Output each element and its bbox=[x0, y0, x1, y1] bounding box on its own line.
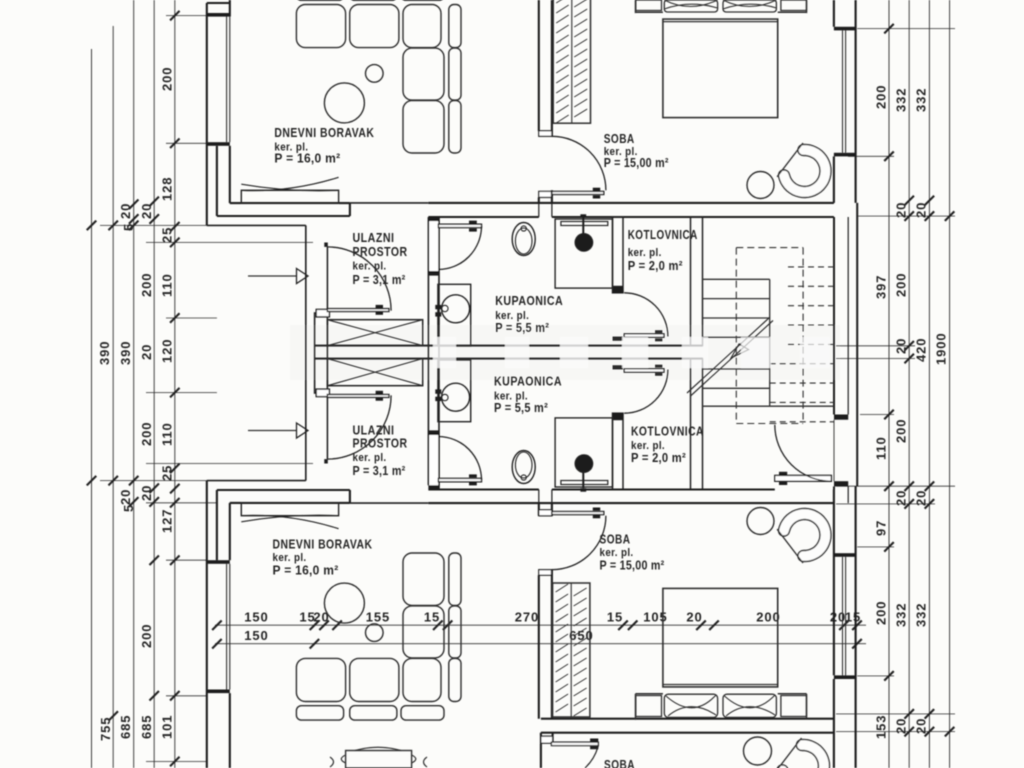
door D4b swing arc bbox=[552, 516, 606, 570]
label kupaonica bottom bbox=[494, 374, 562, 416]
label soba bottom bbox=[600, 532, 665, 573]
wall band living bottom line bbox=[217, 215, 350, 217]
armchair lower soba bbox=[776, 738, 830, 768]
svg-text:20: 20 bbox=[139, 203, 154, 219]
door D1b entry plane line (bottom) bbox=[326, 397, 328, 459]
door D6 swing arc bbox=[775, 425, 832, 482]
label living room top bbox=[274, 125, 374, 166]
wall right inner line top bbox=[833, 0, 835, 27]
svg-text:PROSTOR: PROSTOR bbox=[353, 244, 408, 259]
svg-text:200: 200 bbox=[894, 273, 909, 297]
svg-text:155: 155 bbox=[366, 610, 390, 625]
coffee table top unit bbox=[324, 83, 364, 123]
door D3 jamb top bbox=[613, 286, 624, 293]
wall left middle line bottom bbox=[216, 490, 218, 560]
svg-text:20: 20 bbox=[894, 202, 909, 218]
sideboard bottom living room bbox=[330, 747, 427, 768]
wall junction slot caps soba wall bbox=[539, 203, 552, 217]
wall soba-living bottom unit upper seg bbox=[539, 503, 552, 516]
toilet top inner bbox=[515, 228, 532, 254]
wall right outer line bbox=[855, 0, 857, 203]
door D2b handle bbox=[469, 474, 477, 485]
porch outer edge top bbox=[207, 224, 306, 226]
boiler niche bottom bbox=[555, 418, 612, 487]
extension line left 5 bbox=[166, 317, 217, 319]
svg-text:20: 20 bbox=[894, 338, 909, 354]
party wall hatch band upper bbox=[327, 320, 422, 346]
stair tread 3 bbox=[703, 317, 770, 319]
wall left inner line top upper bbox=[229, 0, 231, 17]
label ulazni prostor bottom bbox=[353, 422, 408, 478]
wall left inner line bottom lower bbox=[229, 693, 231, 768]
wall left middle line bbox=[216, 146, 218, 216]
chair side table top unit bbox=[747, 172, 774, 199]
wall left inner line bottom upper bbox=[229, 503, 231, 560]
svg-text:1900: 1900 bbox=[934, 332, 949, 365]
svg-text:ker. pl.: ker. pl. bbox=[628, 247, 662, 259]
boiler rail top bbox=[561, 222, 608, 226]
stair dashed tread 2 bbox=[788, 285, 834, 287]
door D4b jamb bottom bbox=[539, 570, 552, 576]
boiler niche top bbox=[555, 219, 612, 288]
party wall stub outline bbox=[315, 313, 328, 393]
label soba top bbox=[604, 131, 669, 170]
svg-text:270: 270 bbox=[515, 610, 539, 625]
svg-text:20: 20 bbox=[914, 202, 929, 218]
door D3b handle bbox=[655, 365, 662, 376]
svg-text:5: 5 bbox=[121, 223, 136, 231]
svg-text:SOBA: SOBA bbox=[604, 131, 635, 146]
washbasin bottom bbox=[442, 383, 470, 411]
stair flight separator line bbox=[769, 279, 771, 406]
svg-text:150: 150 bbox=[244, 628, 268, 643]
chair side table lower soba bbox=[744, 737, 772, 765]
door D6 handle bbox=[779, 472, 787, 485]
svg-text:SOBA: SOBA bbox=[600, 532, 631, 547]
toilet bottom flush bbox=[521, 475, 526, 480]
dimension chain line left-5 bbox=[174, 0, 176, 768]
wardrobe soba bottom unit bbox=[553, 583, 590, 717]
svg-text:332: 332 bbox=[914, 88, 929, 112]
door D1b leaf bbox=[327, 395, 389, 398]
entry arrow top shaft bbox=[248, 275, 297, 277]
wall bath-kotl top segment bbox=[613, 217, 624, 293]
boiler stem bottom bbox=[582, 464, 584, 489]
extension line right 1 bbox=[857, 28, 955, 30]
svg-text:P = 2,0 m²: P = 2,0 m² bbox=[628, 259, 683, 273]
stairs entry opening edge lines bbox=[834, 415, 857, 487]
dim line horizontal lower bbox=[215, 643, 866, 645]
window W4 cap bottom bbox=[834, 675, 856, 679]
chair side table bottom unit bbox=[747, 508, 774, 535]
svg-text:200: 200 bbox=[139, 624, 154, 648]
svg-text:200: 200 bbox=[160, 67, 175, 91]
stairs entry jamb bottom bbox=[834, 481, 848, 486]
label kupaonica top bbox=[495, 293, 563, 335]
extension line right 8 bbox=[836, 503, 935, 505]
door D7 handle bbox=[590, 739, 598, 750]
svg-text:25: 25 bbox=[160, 227, 175, 243]
dimension chain line right-3 bbox=[928, 0, 930, 768]
svg-text:755: 755 bbox=[98, 717, 113, 741]
svg-text:5: 5 bbox=[121, 504, 136, 512]
svg-text:128: 128 bbox=[160, 177, 175, 201]
wall band lower soba bottom line bbox=[541, 732, 834, 734]
window W2 cap top bbox=[834, 27, 856, 31]
extension line left 6 bbox=[146, 392, 217, 394]
stairs entry jamb top bbox=[834, 415, 848, 420]
svg-text:ker. pl.: ker. pl. bbox=[600, 547, 634, 559]
stair opening dashed bottom bbox=[736, 423, 803, 425]
label ulazni prostor top bbox=[353, 230, 408, 287]
svg-text:200: 200 bbox=[894, 419, 909, 443]
door D1 entry plane line bbox=[326, 247, 328, 309]
window W4 cap top bbox=[834, 553, 856, 557]
wall left outer line bottom bbox=[206, 481, 208, 768]
stair dashed tread 1 bbox=[788, 266, 834, 268]
stair opening dashed top bbox=[736, 247, 803, 249]
window W3 cap top bbox=[207, 560, 230, 564]
extension line left 12 bbox=[146, 761, 207, 763]
svg-text:P = 3,1 m²: P = 3,1 m² bbox=[353, 464, 406, 478]
svg-text:20: 20 bbox=[313, 610, 329, 625]
door D1b cap bbox=[324, 459, 328, 463]
dimension chain line right-4 bbox=[949, 0, 951, 768]
svg-text:397: 397 bbox=[874, 275, 889, 299]
washbasin top bbox=[442, 295, 470, 323]
dim ticks chain right-1 bbox=[884, 24, 894, 681]
side table top unit bbox=[366, 65, 384, 83]
extension line right 10 bbox=[857, 675, 894, 677]
double bed soba bottom unit bbox=[636, 588, 807, 719]
wall right outer line bottom bbox=[855, 486, 857, 768]
window W3 glass lines bbox=[227, 564, 230, 690]
svg-text:97: 97 bbox=[874, 520, 889, 536]
stair direction arrow bbox=[731, 344, 749, 358]
wall band bottom unit line a bbox=[428, 488, 538, 490]
svg-text:15: 15 bbox=[607, 610, 623, 625]
boiler rail bottom bbox=[561, 481, 608, 485]
extension line left 3 bbox=[100, 224, 207, 226]
door D4 leaf bbox=[552, 191, 604, 194]
extension line right 6 bbox=[860, 414, 894, 416]
extension line right 11 bbox=[836, 713, 955, 715]
window W4 glass lines bbox=[843, 557, 846, 676]
extension line left 2 bbox=[166, 142, 206, 144]
extension line left 8 bbox=[100, 480, 207, 482]
svg-text:P = 2,0 m²: P = 2,0 m² bbox=[631, 451, 686, 465]
stair dashed tread 5 bbox=[788, 343, 834, 345]
door D3 handle bbox=[655, 330, 662, 341]
dim ticks chain left-3 bbox=[129, 200, 139, 507]
stairs shaft right wall lines bottom bbox=[834, 486, 848, 503]
wall kotl-stairs bottom bbox=[691, 359, 703, 490]
porch edge vertical bbox=[305, 225, 307, 480]
stair break line bbox=[687, 318, 773, 397]
wall band bottom unit line a2 bbox=[428, 502, 834, 504]
door D2 swing arc bbox=[438, 226, 481, 270]
svg-text:200: 200 bbox=[874, 601, 889, 625]
stair dashed tread 7 bbox=[770, 382, 834, 384]
svg-text:15: 15 bbox=[845, 610, 861, 625]
washbasin tap top bbox=[435, 305, 448, 317]
stair tread 2 bbox=[703, 298, 770, 300]
door D3b jamb top (mirror) bbox=[613, 365, 624, 369]
wall left outer line top bbox=[206, 3, 208, 225]
door D2 jamb bottom bbox=[428, 271, 439, 276]
stair dashed tread 9 bbox=[770, 421, 834, 423]
party wall hatch band lower bbox=[327, 359, 422, 386]
svg-text:P = 3,1 m²: P = 3,1 m² bbox=[353, 273, 406, 287]
door D7 jamb bbox=[541, 736, 553, 743]
boiler circle top bbox=[575, 234, 592, 251]
wall left top horizontal bbox=[207, 2, 230, 4]
dim line horizontal upper bbox=[215, 624, 866, 626]
washbasin counter top bbox=[438, 284, 471, 346]
extension line left 1 bbox=[166, 15, 206, 17]
svg-text:P = 15,00 m²: P = 15,00 m² bbox=[604, 156, 669, 170]
svg-text:ULAZNI: ULAZNI bbox=[353, 230, 395, 245]
party wall stub cap top bbox=[316, 309, 329, 317]
wall kotl-stairs top bbox=[691, 217, 703, 346]
wall band living bottom unit top line bbox=[217, 489, 350, 491]
svg-text:DNEVNI BORAVAK: DNEVNI BORAVAK bbox=[274, 125, 374, 140]
door D2b jamb bottom (mirror) bbox=[428, 485, 439, 489]
door D3 jamb bottom bbox=[613, 337, 624, 341]
wall soba-living bottom unit lower seg bbox=[539, 570, 552, 719]
svg-text:15: 15 bbox=[424, 610, 440, 625]
svg-text:20: 20 bbox=[894, 490, 909, 506]
double bed soba top unit bbox=[636, 0, 807, 118]
svg-text:685: 685 bbox=[118, 715, 133, 739]
wall band living bottom unit end cap bbox=[349, 490, 351, 503]
entry arrow top head bbox=[297, 269, 309, 284]
extension line left 9 bbox=[146, 502, 217, 504]
dim ticks chain left-1 bbox=[87, 221, 97, 486]
side table bottom unit bbox=[366, 624, 384, 642]
wall right inner line bottom b bbox=[833, 679, 835, 768]
toilet bottom inner bbox=[515, 452, 532, 478]
hall bottom line (bottom unit) bbox=[350, 502, 429, 504]
door D1 swing arc bbox=[327, 247, 391, 311]
watermark fade band bbox=[290, 325, 840, 380]
door D2 handle bbox=[469, 221, 477, 232]
dim ticks chain right-4 bbox=[945, 211, 955, 736]
stair landing edge line bbox=[703, 405, 835, 407]
door D3b jamb bottom (mirror) bbox=[613, 413, 624, 420]
svg-text:390: 390 bbox=[97, 341, 112, 365]
extension line right 2 bbox=[848, 155, 894, 157]
extension line right 4 bbox=[836, 345, 915, 347]
stair tread 4 bbox=[703, 336, 770, 338]
door D3 swing arc bbox=[624, 293, 668, 337]
window W2 cap bottom bbox=[834, 153, 856, 157]
svg-text:332: 332 bbox=[894, 603, 909, 627]
wall band bottom line right a bbox=[428, 216, 538, 218]
svg-text:20: 20 bbox=[118, 203, 133, 219]
window curves living top bbox=[241, 177, 338, 191]
wall hall-bath outline bbox=[428, 217, 439, 490]
svg-text:420: 420 bbox=[914, 338, 929, 362]
dimension chain line right-1 bbox=[888, 0, 890, 768]
extension line left 11 bbox=[166, 695, 207, 697]
svg-text:20: 20 bbox=[914, 718, 929, 734]
wall soba-living top segment bbox=[539, 0, 552, 136]
party wall hatch X lower bbox=[327, 359, 422, 386]
wall band living end cap bbox=[349, 203, 351, 216]
window W3 cap bottom bbox=[207, 690, 230, 694]
boiler stem top bbox=[582, 218, 584, 243]
wall band bottom line right b bbox=[552, 216, 834, 218]
extension line right 5 bbox=[836, 358, 915, 360]
stair tread 1 bbox=[703, 278, 770, 280]
door D4b jamb top bbox=[539, 510, 552, 516]
dim ticks chain right-2 bbox=[904, 196, 914, 737]
wall hall-bath white core bottom bbox=[429, 435, 438, 485]
dim ticks chain left-4 bbox=[149, 197, 159, 701]
svg-text:DNEVNI BORAVAK: DNEVNI BORAVAK bbox=[273, 537, 373, 552]
wall right inner line bottom a bbox=[833, 490, 835, 676]
dim ticks horizontal upper bbox=[212, 620, 862, 630]
boiler stem cap top bbox=[580, 214, 586, 218]
wall band living top line bbox=[230, 202, 350, 204]
svg-text:20: 20 bbox=[830, 610, 846, 625]
extension line left 10 bbox=[166, 559, 207, 561]
stair opening dashed right bbox=[802, 248, 804, 424]
svg-text:332: 332 bbox=[894, 88, 909, 112]
dim ticks chain right-3 bbox=[925, 196, 935, 737]
door D2 leaf bbox=[438, 224, 481, 227]
door D4 swing arc bbox=[552, 136, 606, 190]
svg-text:390: 390 bbox=[118, 341, 133, 365]
door D2b leaf bbox=[438, 478, 481, 481]
svg-text:25: 25 bbox=[160, 465, 175, 481]
wall soba-living bottom segment bbox=[539, 190, 552, 203]
window W2 glass lines bbox=[843, 30, 846, 152]
window sill living bottom bbox=[241, 503, 338, 516]
party wall hatch X upper bbox=[327, 320, 422, 346]
wall band lower soba top line bbox=[541, 718, 834, 720]
svg-text:20: 20 bbox=[118, 489, 133, 505]
door D4b leaf bbox=[552, 512, 604, 515]
door D4 jamb bottom bbox=[539, 191, 552, 197]
svg-text:KOTLOVNICA: KOTLOVNICA bbox=[628, 227, 698, 242]
door D1 handle bbox=[376, 305, 383, 315]
stair dashed tread 4 bbox=[788, 324, 834, 326]
svg-text:332: 332 bbox=[914, 603, 929, 627]
porch outer edge bottom bbox=[207, 480, 306, 482]
svg-text:P = 15,00 m²: P = 15,00 m² bbox=[600, 559, 665, 573]
toilet top outer bbox=[512, 223, 535, 256]
svg-text:20: 20 bbox=[139, 344, 154, 360]
extension line right 3 bbox=[857, 215, 955, 217]
svg-text:ker. pl.: ker. pl. bbox=[273, 552, 307, 564]
svg-text:150: 150 bbox=[244, 610, 268, 625]
sofa living room top unit bbox=[296, 0, 461, 153]
svg-text:20: 20 bbox=[139, 485, 154, 501]
extension line right 9 bbox=[857, 546, 894, 548]
svg-text:P = 5,5 m²: P = 5,5 m² bbox=[494, 401, 548, 415]
svg-text:ker. pl.: ker. pl. bbox=[353, 452, 387, 464]
hall top line bbox=[350, 202, 429, 204]
door D1b handle bbox=[376, 391, 383, 401]
wall lower soba left seg bbox=[541, 733, 553, 768]
wall left inner line top lower bbox=[229, 146, 231, 203]
door D1 leaf bbox=[327, 309, 389, 312]
door D4b handle bbox=[593, 508, 600, 519]
coffee table bottom unit bbox=[324, 583, 364, 623]
window W1 cap top bbox=[207, 13, 230, 17]
armchair soba bottom unit bbox=[777, 509, 831, 564]
door D2 jamb top bbox=[428, 217, 439, 221]
stair dashed tread 3 bbox=[788, 305, 834, 307]
door D4 handle bbox=[593, 188, 600, 199]
door D2b jamb top (mirror) bbox=[428, 430, 439, 435]
window W1 left glass lines bbox=[227, 17, 230, 143]
extension line right 12 bbox=[836, 731, 955, 733]
door D4 jamb top bbox=[539, 131, 552, 137]
svg-text:PROSTOR: PROSTOR bbox=[353, 436, 408, 451]
svg-text:110: 110 bbox=[160, 422, 175, 446]
door D1 cap bbox=[324, 243, 328, 247]
washbasin counter bottom bbox=[438, 360, 471, 422]
door D3b swing arc bbox=[624, 370, 668, 414]
entry arrow bottom shaft bbox=[248, 430, 297, 432]
dimension chain line left-3 bbox=[133, 0, 135, 768]
stair tread 6 bbox=[703, 387, 770, 389]
svg-text:20: 20 bbox=[894, 718, 909, 734]
wardrobe soba top unit bbox=[553, 0, 590, 123]
stair dashed tread 6 bbox=[770, 363, 834, 365]
svg-text:101: 101 bbox=[160, 715, 175, 739]
svg-text:153: 153 bbox=[874, 715, 889, 739]
boiler circle bottom bbox=[575, 455, 592, 472]
svg-text:20: 20 bbox=[686, 610, 702, 625]
wall band bottom unit line b bbox=[552, 488, 775, 490]
svg-text:200: 200 bbox=[139, 273, 154, 297]
extension line right 7 bbox=[836, 485, 955, 487]
door D6 leaf bbox=[775, 475, 832, 481]
svg-text:ker. pl.: ker. pl. bbox=[353, 261, 387, 273]
party wall stub cap bottom bbox=[316, 389, 329, 397]
dim ticks chain left-5 bbox=[170, 11, 180, 766]
washbasin tap bottom bbox=[435, 389, 448, 401]
svg-text:KOTLOVNICA: KOTLOVNICA bbox=[631, 424, 704, 439]
party wall band bottom line bbox=[315, 358, 703, 360]
wall right inner line below window bbox=[833, 156, 835, 203]
dim ticks horizontal lower bbox=[212, 639, 862, 649]
stair opening dashed left bbox=[735, 248, 737, 424]
wall band top line right bbox=[428, 202, 834, 204]
party wall band top line bbox=[315, 345, 703, 347]
svg-text:200: 200 bbox=[874, 85, 889, 109]
label kotlovnica bottom bbox=[631, 424, 704, 466]
boiler stem cap bottom bbox=[580, 488, 586, 492]
sofa living room bottom unit bbox=[296, 553, 461, 720]
svg-text:110: 110 bbox=[160, 273, 175, 297]
svg-text:P = 16,0 m²: P = 16,0 m² bbox=[273, 564, 339, 578]
entry arrow bottom head bbox=[297, 423, 309, 438]
svg-text:KUPAONICA: KUPAONICA bbox=[495, 293, 563, 308]
door D3 leaf bbox=[624, 334, 664, 338]
label living room bottom bbox=[273, 537, 373, 578]
svg-text:127: 127 bbox=[160, 509, 175, 533]
svg-text:P = 16,0 m²: P = 16,0 m² bbox=[274, 152, 340, 166]
svg-text:685: 685 bbox=[139, 715, 154, 739]
door D1b swing arc bbox=[327, 395, 391, 459]
svg-text:200: 200 bbox=[139, 422, 154, 446]
dimension chain line left-2 bbox=[112, 26, 114, 768]
